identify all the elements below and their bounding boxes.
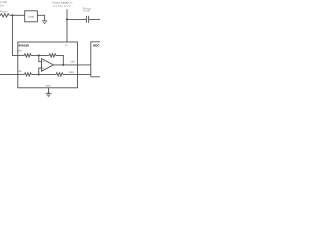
wire: IN- rail [18, 54, 25, 56]
wire: GND pin stub [48, 88, 50, 94]
svg-text:IN–: IN– [18, 50, 22, 53]
pin label REF [69, 71, 74, 74]
node: sense junction [11, 14, 13, 16]
ground (load) [42, 21, 47, 24]
resistor R1 (IN- input) [24, 54, 31, 57]
pin label OUT [71, 61, 77, 64]
resistor RSHUNT value label [0, 10, 9, 13]
label INA185 [19, 44, 30, 48]
wire: node B up to op-amp + input [39, 68, 42, 74]
node B (non-inverting node) [38, 73, 40, 75]
svg-text:GND: GND [46, 84, 52, 87]
wire: shunt to load [10, 14, 25, 16]
svg-text:Load: Load [28, 15, 34, 18]
node: power supply label [52, 1, 73, 8]
resistor R3 (IN+ input) [25, 73, 32, 76]
wire: R2 to OUT junction [56, 55, 64, 65]
capacitor CBYPASS [86, 16, 88, 23]
op-amp U1 [42, 59, 54, 72]
svg-text:0.1 µF: 0.1 µF [83, 10, 90, 13]
wire: cap to edge [89, 18, 100, 20]
INA185 box [18, 42, 78, 88]
svg-text:OUT: OUT [71, 61, 77, 64]
wire: op-amp output / OUT pin [53, 64, 90, 66]
resistor RSHUNT [0, 14, 9, 17]
pin label IN+ [18, 70, 22, 73]
node: supply junction [66, 18, 68, 20]
wire: IN+ rail [18, 73, 25, 75]
op-amp minus sign [42, 61, 43, 63]
wire: supply rail to bypass cap [67, 18, 86, 20]
wire: R4 to REF pin and out to ADC [63, 73, 91, 75]
resistor R4 (to REF) [56, 73, 63, 76]
node A (inverting node) [38, 54, 40, 56]
load box [25, 11, 38, 22]
node: OUT feedback junction [62, 64, 64, 66]
label ADC [93, 44, 100, 48]
pin label VS [65, 44, 69, 47]
pin label IN- [18, 50, 22, 53]
svg-text:ADC: ADC [93, 44, 100, 48]
ground (GND pin) [48, 92, 50, 94]
wire: supply stub down to junction [66, 9, 68, 19]
wire: VS drop to box [66, 19, 68, 42]
wire: IN+ external lead [0, 73, 18, 75]
svg-text:REF: REF [69, 71, 74, 74]
svg-text:INA185: INA185 [19, 44, 30, 48]
pin label GND [46, 84, 52, 87]
ADC box [91, 42, 100, 77]
node: supply bus label (top-left text) [0, 1, 7, 7]
svg-text:5 V: 5 V [0, 4, 4, 7]
resistor R2 (feedback) [49, 54, 56, 57]
wire: node A down to op-amp - input [39, 55, 42, 61]
wire: R1 to node A [31, 54, 49, 56]
svg-text:2.7 V to 5.5 V: 2.7 V to 5.5 V [53, 5, 71, 8]
svg-text:IN+: IN+ [18, 70, 22, 73]
wire: R3 to node B [31, 73, 56, 75]
wire: load to ground [37, 15, 44, 20]
op-amp plus sign [42, 68, 43, 69]
wire: junction down to IN- pin [12, 15, 17, 55]
svg-text:VS: VS [65, 44, 69, 47]
